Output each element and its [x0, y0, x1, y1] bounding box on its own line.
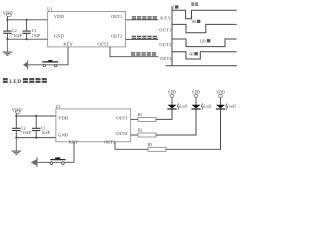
svg-text:U1: U1 [47, 6, 52, 11]
node junction C2 gnd (bottom) [15, 137, 17, 139]
svg-text:VDD: VDD [192, 90, 201, 95]
svg-text:OUT1: OUT1 [116, 116, 127, 121]
wire VDD rail (top circuit) [7, 19, 47, 21]
waveform OUT1 [172, 24, 237, 32]
svg-text:Led1: Led1 [180, 104, 188, 108]
resistor R3 [148, 143, 166, 151]
svg-text:R3: R3 [148, 143, 153, 147]
power symbol VDD (top circuit) [3, 11, 13, 21]
title LED application text [3, 78, 47, 85]
svg-text:VDD: VDD [216, 90, 225, 95]
wire GND net (bottom circuit) [16, 137, 56, 139]
switch S1 push button (top circuit) [42, 60, 58, 67]
svg-text:OUT1: OUT1 [111, 14, 122, 19]
label timing title [191, 3, 198, 6]
power symbol VDD (bottom circuit) [12, 107, 22, 117]
capacitor C2 (top circuit) [3, 20, 22, 39]
capacitor C1 (bottom circuit) [32, 116, 50, 138]
wire VDD rail (bottom circuit) [16, 115, 56, 117]
timing axis vertical [171, 6, 173, 66]
node junction C1 to gnd wire [26, 38, 28, 40]
svg-text:OUT1: OUT1 [159, 28, 171, 33]
resistor R2 [138, 129, 156, 137]
svg-text:60: 60 [190, 51, 194, 56]
svg-text:R2: R2 [138, 129, 143, 133]
wire OUT1 to R1 (bottom) [131, 118, 138, 120]
power symbol VDD (LED1) [168, 90, 177, 105]
label 60s (OUT3) [190, 51, 198, 56]
timing axis horizontal [166, 65, 237, 67]
svg-text:Led2: Led2 [204, 104, 212, 108]
connector arrow (bottom KEY gnd) [31, 157, 37, 167]
ground (top circuit) [3, 39, 13, 55]
svg-text:*104P: *104P [11, 34, 21, 38]
LED Led2 [191, 104, 211, 136]
svg-text:KEY: KEY [63, 42, 73, 47]
svg-text:C2: C2 [12, 29, 17, 33]
wire OUT3 to R3 (bottom) [115, 142, 148, 150]
svg-text:Led3: Led3 [229, 104, 237, 108]
svg-text:U1: U1 [56, 104, 61, 109]
label 60s (KEY) [192, 19, 200, 24]
LED Led1 [167, 104, 187, 120]
svg-text:GND: GND [54, 34, 65, 39]
waveform KEY [172, 10, 237, 19]
wire GND net (top circuit) [7, 38, 47, 40]
wire OUT2 to R2 (bottom) [131, 134, 138, 136]
LED Led3 [216, 104, 236, 150]
net label low-level-output OUT2 [132, 36, 157, 40]
connector arrow (top KEY gnd) [23, 60, 28, 69]
svg-text:104P: 104P [32, 34, 40, 38]
IC U1 chip box (top circuit) [47, 6, 125, 47]
svg-text:OUT2: OUT2 [111, 34, 122, 39]
svg-text:C1: C1 [32, 29, 37, 33]
net label low-level-output OUT3 [131, 52, 156, 56]
wire KEY net (bottom circuit) [37, 142, 74, 163]
resistor R1 [138, 113, 156, 121]
svg-text:VDD: VDD [168, 90, 177, 95]
svg-text:OUT3: OUT3 [104, 139, 116, 144]
wire OUT1 net (top circuit) [126, 19, 159, 21]
svg-text:60: 60 [192, 19, 196, 24]
power symbol VDD (LED2) [192, 90, 201, 105]
waveform OUT2 [172, 39, 237, 47]
svg-text:1: 1 [172, 5, 174, 10]
node junction cap C1 tap (top rail) [26, 19, 28, 21]
wire OUT3 net (top circuit) [110, 47, 159, 57]
svg-text:C1: C1 [41, 126, 46, 130]
svg-text:GND: GND [58, 133, 68, 138]
node junction C1 gnd (bottom) [35, 137, 37, 139]
svg-text:120: 120 [200, 38, 206, 43]
svg-text:OUT3: OUT3 [97, 42, 109, 47]
node junction C2 to gnd wire [6, 38, 8, 40]
ground (bottom circuit) [12, 138, 22, 155]
label 120s (OUT2) [200, 38, 211, 43]
wire R2 to LED2 [156, 109, 196, 135]
svg-text:KEY: KEY [160, 16, 171, 21]
svg-text:OUT2: OUT2 [116, 131, 127, 136]
net label low-level-output OUT1 [132, 16, 157, 20]
capacitor C2 (bottom circuit) [12, 116, 31, 138]
wire R3 to LED3 [166, 109, 221, 149]
svg-text:104P: 104P [41, 131, 49, 135]
svg-text:VDD: VDD [54, 14, 65, 19]
wire R1 to LED1 [156, 109, 172, 119]
waveform OUT3 [172, 52, 237, 59]
wire OUT2 net (top circuit) [126, 38, 159, 40]
capacitor C1 (top circuit) [22, 20, 40, 39]
svg-text:*104P: *104P [20, 131, 30, 135]
IC U1 chip box (bottom circuit) [56, 104, 131, 142]
power symbol VDD (LED3) [216, 90, 225, 105]
svg-text:C2: C2 [21, 126, 26, 130]
label 1s [172, 5, 178, 10]
svg-text:OUT2: OUT2 [159, 42, 171, 47]
svg-text:OUT3: OUT3 [160, 56, 171, 61]
svg-text:R1: R1 [138, 113, 143, 117]
switch S2 push button (bottom circuit) [50, 157, 65, 164]
wire KEY net (top circuit) [28, 47, 68, 65]
svg-text:LED: LED [9, 80, 21, 85]
node junction cap C1 tap (bottom rail) [35, 115, 37, 117]
svg-text:VDD: VDD [58, 116, 68, 121]
